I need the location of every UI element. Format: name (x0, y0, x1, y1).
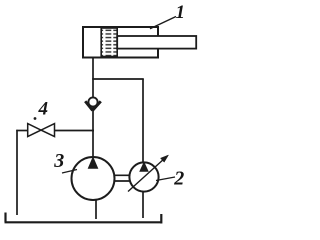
svg-text:4: 4 (38, 99, 49, 120)
svg-text:2: 2 (173, 168, 184, 190)
svg-text:1: 1 (176, 2, 186, 23)
svg-text:3: 3 (53, 150, 64, 172)
